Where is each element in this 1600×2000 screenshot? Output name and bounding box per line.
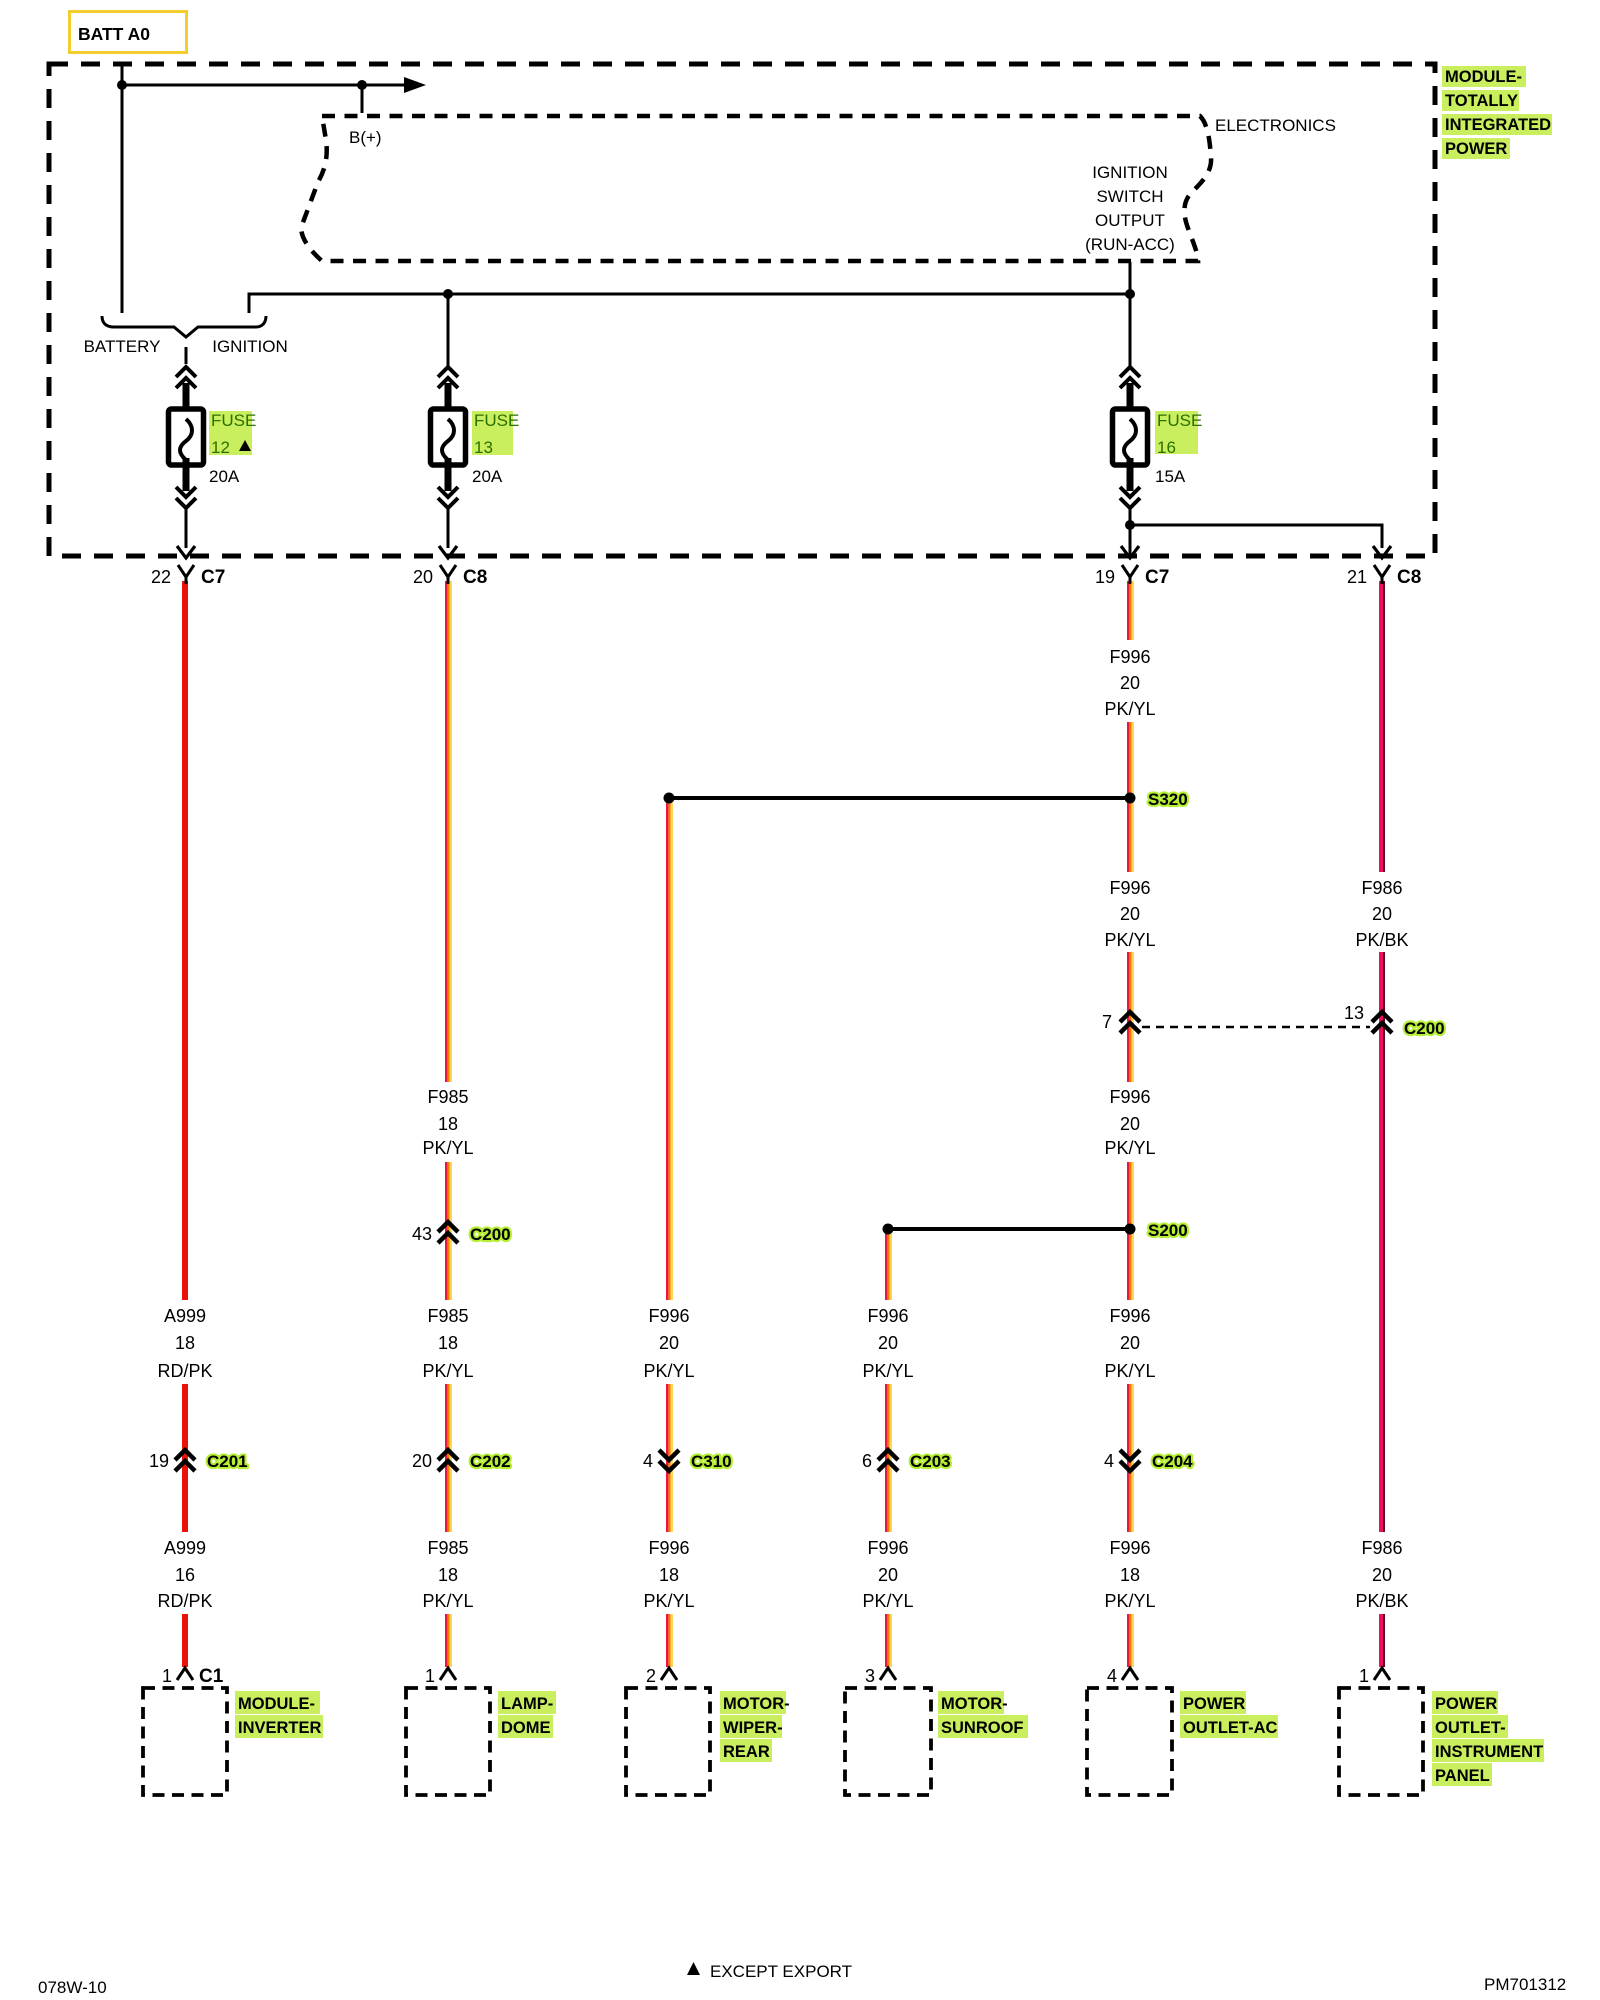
svg-text:20: 20 <box>413 567 433 587</box>
svg-text:FUSE: FUSE <box>211 411 256 430</box>
svg-text:REAR: REAR <box>723 1743 770 1761</box>
svg-text:INSTRUMENT: INSTRUMENT <box>1435 1743 1543 1761</box>
svg-text:PK/YL: PK/YL <box>1104 1591 1155 1611</box>
component MODULE-INVERTER <box>143 1688 323 1795</box>
svg-text:F985: F985 <box>427 1087 468 1107</box>
module label MODULE-TOTALLY INTEGRATED POWER <box>1442 66 1552 159</box>
connector C7 pin 22 <box>151 565 225 588</box>
svg-text:C200: C200 <box>470 1225 511 1244</box>
svg-text:SWITCH: SWITCH <box>1096 187 1163 206</box>
svg-text:078W-10: 078W-10 <box>38 1978 107 1997</box>
svg-text:F986: F986 <box>1361 878 1402 898</box>
svg-text:C201: C201 <box>207 1452 248 1471</box>
connector C200 pins 7/13 <box>1102 1003 1445 1038</box>
wire electronics to bus <box>1129 262 1132 294</box>
svg-text:POWER: POWER <box>1435 1695 1497 1713</box>
wire B(+) bus with arrow <box>122 84 404 87</box>
connector C8 pin 20 <box>413 565 487 588</box>
svg-text:20A: 20A <box>209 467 240 486</box>
BATT A0 callout box <box>70 12 187 53</box>
svg-text:18: 18 <box>175 1333 195 1353</box>
svg-text:C200: C200 <box>1404 1019 1445 1038</box>
component MOTOR-SUNROOF <box>845 1688 1028 1795</box>
svg-text:FUSE: FUSE <box>474 411 519 430</box>
wire labels row 5 <box>157 1538 1408 1611</box>
svg-text:20A: 20A <box>472 467 503 486</box>
svg-text:C7: C7 <box>201 567 225 588</box>
svg-text:RD/PK: RD/PK <box>157 1361 212 1381</box>
pin 1 power outlet-instrument panel <box>1359 1666 1390 1686</box>
svg-text:1: 1 <box>425 1666 435 1686</box>
svg-text:EXCEPT EXPORT: EXCEPT EXPORT <box>710 1962 852 1981</box>
svg-text:PK/YL: PK/YL <box>1104 1138 1155 1158</box>
svg-text:IGNITION: IGNITION <box>1092 163 1168 182</box>
svg-text:PM701312: PM701312 <box>1484 1975 1566 1994</box>
svg-text:7: 7 <box>1102 1012 1112 1032</box>
svg-text:20: 20 <box>1372 904 1392 924</box>
svg-text:F996: F996 <box>1109 1306 1150 1326</box>
svg-text:PK/YL: PK/YL <box>643 1591 694 1611</box>
wire F996 PK/YL column 5 <box>1127 581 1134 1667</box>
svg-text:F996: F996 <box>1109 1087 1150 1107</box>
svg-text:C202: C202 <box>470 1452 511 1471</box>
svg-text:S320: S320 <box>1148 790 1188 809</box>
svg-text:PK/YL: PK/YL <box>422 1591 473 1611</box>
svg-text:A999: A999 <box>164 1538 206 1558</box>
svg-text:F996: F996 <box>1109 647 1150 667</box>
connector C8 pin 21 <box>1347 565 1421 588</box>
svg-text:20: 20 <box>1120 904 1140 924</box>
svg-text:12: 12 <box>211 438 230 457</box>
svg-text:16: 16 <box>1157 438 1176 457</box>
component POWER OUTLET-INSTRUMENT PANEL <box>1339 1688 1544 1795</box>
svg-text:F996: F996 <box>1109 878 1150 898</box>
svg-text:13: 13 <box>474 438 493 457</box>
svg-text:20: 20 <box>878 1333 898 1353</box>
svg-text:B(+): B(+) <box>349 128 382 147</box>
svg-text:2: 2 <box>646 1666 656 1686</box>
component POWER OUTLET-AC <box>1087 1688 1278 1795</box>
footer except export note <box>687 1962 852 1981</box>
connector C204 pin 4 <box>1104 1450 1193 1471</box>
svg-text:OUTLET-AC: OUTLET-AC <box>1183 1719 1277 1737</box>
svg-text:43: 43 <box>412 1224 432 1244</box>
svg-text:F986: F986 <box>1361 1538 1402 1558</box>
svg-text:FUSE: FUSE <box>1157 411 1202 430</box>
svg-text:PK/YL: PK/YL <box>1104 1361 1155 1381</box>
connector C202 pin 20 <box>412 1450 511 1471</box>
svg-text:WIPER-: WIPER- <box>723 1719 783 1737</box>
svg-text:OUTPUT: OUTPUT <box>1095 211 1165 230</box>
svg-text:RD/PK: RD/PK <box>157 1591 212 1611</box>
svg-text:F996: F996 <box>648 1538 689 1558</box>
wire label F996 20 PK/YL (col5 below S320) <box>1104 878 1155 950</box>
svg-text:TOTALLY: TOTALLY <box>1445 92 1518 110</box>
svg-text:PK/BK: PK/BK <box>1355 930 1408 950</box>
wire drop to fuse 16 <box>1129 294 1132 366</box>
connector C201 pin 19 <box>149 1450 248 1471</box>
svg-text:1: 1 <box>162 1666 172 1686</box>
connector C7 pin 19 <box>1095 565 1169 588</box>
svg-text:LAMP-: LAMP- <box>501 1695 553 1713</box>
electronics block boundary <box>301 116 1211 261</box>
svg-text:18: 18 <box>659 1565 679 1585</box>
svg-text:INVERTER: INVERTER <box>238 1719 322 1737</box>
svg-text:MODULE-: MODULE- <box>238 1695 315 1713</box>
svg-text:DOME: DOME <box>501 1719 551 1737</box>
svg-text:15A: 15A <box>1155 467 1186 486</box>
svg-text:18: 18 <box>1120 1565 1140 1585</box>
svg-text:BATT A0: BATT A0 <box>78 24 150 44</box>
brace battery/ignition <box>102 316 266 337</box>
svg-text:C8: C8 <box>463 567 487 588</box>
svg-text:F985: F985 <box>427 1538 468 1558</box>
svg-text:1: 1 <box>1359 1666 1369 1686</box>
svg-text:18: 18 <box>438 1333 458 1353</box>
fuse F16 <box>1113 367 1148 558</box>
svg-text:20: 20 <box>1372 1565 1392 1585</box>
svg-text:13: 13 <box>1344 1003 1364 1023</box>
svg-text:19: 19 <box>1095 567 1115 587</box>
connector C203 pin 6 <box>862 1450 951 1471</box>
svg-text:21: 21 <box>1347 567 1367 587</box>
svg-text:20: 20 <box>1120 673 1140 693</box>
svg-text:4: 4 <box>643 1451 653 1471</box>
svg-text:18: 18 <box>438 1565 458 1585</box>
svg-text:PK/YL: PK/YL <box>1104 699 1155 719</box>
node fuse16 tap <box>1125 289 1135 299</box>
pin 2 motor-wiper-rear <box>646 1666 677 1686</box>
svg-text:C7: C7 <box>1145 567 1169 588</box>
fuse F13 <box>431 367 466 558</box>
node fuse13 tap <box>443 289 453 299</box>
component LAMP-DOME <box>406 1688 556 1795</box>
svg-text:22: 22 <box>151 567 171 587</box>
svg-text:C310: C310 <box>691 1452 732 1471</box>
svg-text:C8: C8 <box>1397 567 1421 588</box>
pin 3 motor-sunroof <box>865 1666 896 1686</box>
wire label F996 20 PK/YL (top col5) <box>1104 647 1155 719</box>
svg-text:PK/YL: PK/YL <box>643 1361 694 1381</box>
svg-text:A999: A999 <box>164 1306 206 1326</box>
pin 1 lamp-dome <box>425 1666 456 1686</box>
svg-text:F996: F996 <box>1109 1538 1150 1558</box>
wire F986 PK/BK column 6 <box>1379 581 1385 1667</box>
svg-text:3: 3 <box>865 1666 875 1686</box>
svg-text:4: 4 <box>1107 1666 1117 1686</box>
svg-text:ELECTRONICS: ELECTRONICS <box>1215 116 1336 135</box>
svg-text:19: 19 <box>149 1451 169 1471</box>
svg-text:20: 20 <box>1120 1333 1140 1353</box>
connector C1 pin 1 <box>162 1666 224 1687</box>
svg-text:MODULE-: MODULE- <box>1445 68 1522 86</box>
svg-text:20: 20 <box>878 1565 898 1585</box>
svg-text:20: 20 <box>412 1451 432 1471</box>
svg-text:18: 18 <box>438 1114 458 1134</box>
wire F996 PK/YL column 4 <box>885 1234 892 1667</box>
fuse F16 label <box>1155 411 1202 486</box>
svg-text:POWER: POWER <box>1183 1695 1245 1713</box>
fuse F12 <box>169 367 204 558</box>
wire B(+) drop <box>361 85 364 113</box>
svg-text:PK/BK: PK/BK <box>1355 1591 1408 1611</box>
svg-text:PK/YL: PK/YL <box>862 1361 913 1381</box>
svg-text:4: 4 <box>1104 1451 1114 1471</box>
node fuse16 branch <box>1125 520 1135 530</box>
svg-text:INTEGRATED: INTEGRATED <box>1445 116 1551 134</box>
svg-text:MOTOR-: MOTOR- <box>941 1695 1008 1713</box>
svg-text:PANEL: PANEL <box>1435 1767 1490 1785</box>
svg-text:F996: F996 <box>867 1306 908 1326</box>
fuse F13 label <box>472 411 519 486</box>
svg-text:MOTOR-: MOTOR- <box>723 1695 790 1713</box>
svg-text:S200: S200 <box>1148 1221 1188 1240</box>
svg-text:C203: C203 <box>910 1452 951 1471</box>
wire label F986 20 PK/BK (col6) <box>1355 878 1408 950</box>
svg-text:F996: F996 <box>867 1538 908 1558</box>
splice S320 <box>664 790 1188 809</box>
svg-text:6: 6 <box>862 1451 872 1471</box>
wire branch to C8-21 <box>1130 525 1382 548</box>
wire A999 RD/PK column 1 <box>182 581 188 1667</box>
svg-text:BATTERY: BATTERY <box>84 337 161 356</box>
wire label F985 18 PK/YL (col2) <box>422 1087 473 1158</box>
wire F985 PK/YL column 2 <box>445 581 452 1667</box>
svg-text:F996: F996 <box>648 1306 689 1326</box>
svg-text:20: 20 <box>659 1333 679 1353</box>
white label patches <box>153 640 1414 1614</box>
svg-text:IGNITION: IGNITION <box>212 337 288 356</box>
splice S200 <box>883 1221 1188 1240</box>
wire label F996 20 PK/YL (col5 below C200) <box>1104 1087 1155 1158</box>
svg-text:(RUN-ACC): (RUN-ACC) <box>1085 235 1175 254</box>
svg-text:PK/YL: PK/YL <box>422 1361 473 1381</box>
connector C310 pin 4 <box>643 1450 732 1471</box>
wire battery feed <box>121 64 124 313</box>
pin 4 power outlet-ac <box>1107 1666 1138 1686</box>
svg-text:C204: C204 <box>1152 1452 1193 1471</box>
fuse F12 label <box>209 411 256 486</box>
wire ignition bus <box>249 294 1130 313</box>
component MOTOR-WIPER-REAR <box>626 1688 790 1795</box>
wire drop to fuse 13 <box>447 294 450 366</box>
svg-text:16: 16 <box>175 1565 195 1585</box>
svg-text:PK/YL: PK/YL <box>862 1591 913 1611</box>
svg-text:F985: F985 <box>427 1306 468 1326</box>
svg-text:PK/YL: PK/YL <box>422 1138 473 1158</box>
module boundary: totally integrated power <box>49 64 1435 556</box>
svg-text:OUTLET-: OUTLET- <box>1435 1719 1506 1737</box>
connector C200 pin 43 <box>412 1222 511 1244</box>
svg-text:PK/YL: PK/YL <box>1104 930 1155 950</box>
wire labels row 4 <box>157 1306 1155 1381</box>
wire F996 PK/YL column 3 <box>666 803 673 1667</box>
svg-text:SUNROOF: SUNROOF <box>941 1719 1024 1737</box>
svg-text:20: 20 <box>1120 1114 1140 1134</box>
node battery junction <box>117 80 127 90</box>
svg-text:C1: C1 <box>199 1666 224 1687</box>
svg-text:POWER: POWER <box>1445 140 1507 158</box>
node B(+) tap <box>357 80 367 90</box>
wire brace to fuse 12 <box>185 347 188 364</box>
